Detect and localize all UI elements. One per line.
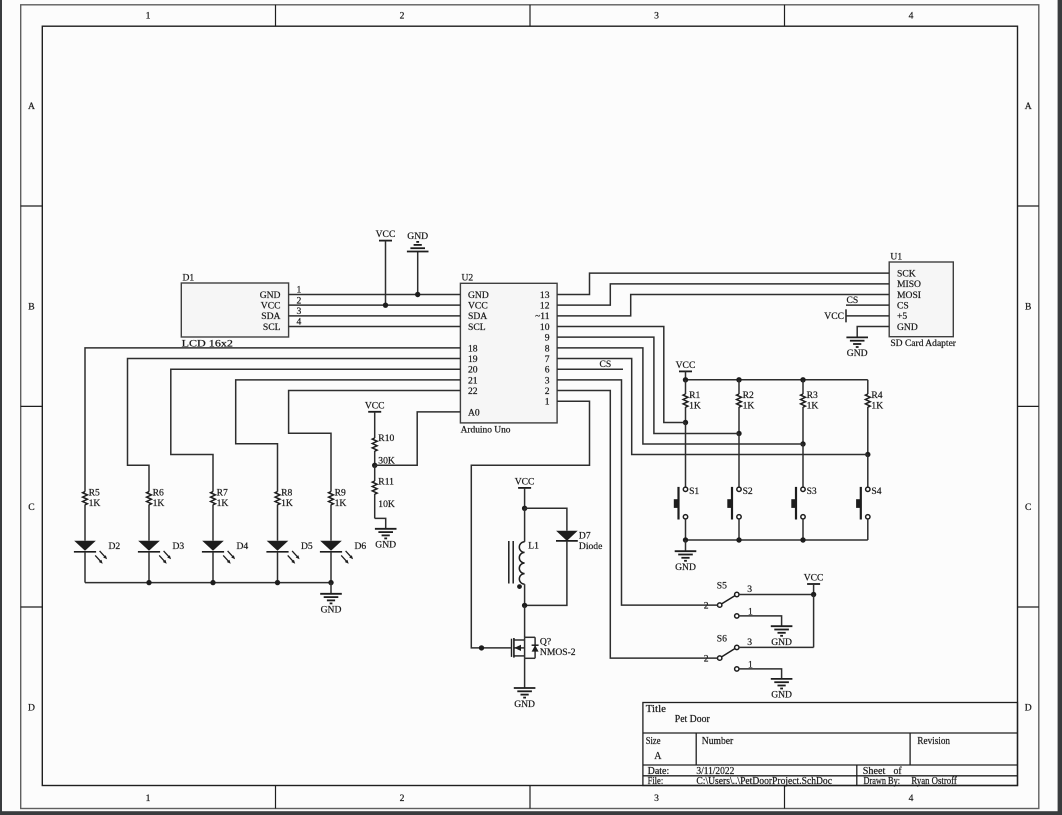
junction VCC at S5.3 [811,592,816,597]
svg-text:S3: S3 [807,486,817,497]
svg-text:GND: GND [514,699,535,710]
svg-text:C:\Users\..\PetDoorProject.Sch: C:\Users\..\PetDoorProject.SchDoc [696,776,832,787]
wire S5.1 to ground [739,616,782,626]
wire U2.22 to R9 [289,391,461,492]
wire net SDA D1.3 to U2.SDA [289,315,461,317]
svg-text:1K: 1K [217,498,229,509]
resistor R4 [867,380,869,394]
svg-text:Q?: Q? [540,636,551,647]
svg-text:MISO: MISO [897,279,921,290]
switch S5 [718,603,722,607]
resistor R5 [83,492,88,505]
svg-text:Number: Number [702,736,734,747]
junction R4 bottom [865,452,870,457]
svg-text:D: D [28,703,35,714]
junction R10/R11 node [372,463,377,468]
wire divider node to U2.A0 [375,412,461,465]
svg-text:1K: 1K [281,498,293,509]
led D6 [330,507,332,541]
svg-text:SDA: SDA [468,311,487,322]
svg-text:GND: GND [771,690,792,701]
svg-text:10: 10 [540,322,550,333]
power GND below U1 [846,336,868,338]
diode D7 [556,531,578,541]
wire U2.10 to R1/S1 node [557,327,685,423]
svg-text:9: 9 [545,333,550,344]
svg-text:D6: D6 [355,541,367,552]
wire S3 to ground rail [802,519,804,540]
svg-text:3/11/2022: 3/11/2022 [696,766,734,777]
svg-text:U2: U2 [462,273,474,284]
resistor R9 [329,492,334,505]
svg-text:SDA: SDA [261,311,280,322]
wire U2.1 to Q gate [471,401,589,648]
svg-text:R5: R5 [89,487,100,498]
svg-text:D5: D5 [301,541,313,552]
svg-text:SD Card Adapter: SD Card Adapter [890,338,956,349]
svg-text:VCC: VCC [365,400,385,411]
svg-text:4: 4 [909,11,914,22]
svg-text:+5: +5 [897,311,907,322]
svg-text:Arduino Uno: Arduino Uno [461,424,511,435]
resistor R10 [374,425,376,438]
svg-text:Pet Door: Pet Door [675,714,711,725]
junction LED rail at x=149 [146,580,151,585]
power GND below Q [514,687,536,689]
power GND below S6.1 [771,678,793,680]
junction S rail at S2 [736,537,741,542]
pushbutton S2 [737,487,741,491]
junction GND net at D1 bus [415,292,420,297]
power GND below S5.1 [771,625,793,627]
pushbutton S4 [866,487,870,491]
svg-text:GND: GND [847,348,868,359]
wire R3 to S3 [802,444,804,487]
wire U2.2 to S6.2 [557,391,717,659]
svg-text:VCC: VCC [804,573,824,584]
svg-text:Revision: Revision [917,736,950,747]
wire L1 top to D7 cathode [525,508,567,531]
resistor R1 [685,380,687,394]
wire S5.3 to VCC node [739,594,814,596]
wire net SCL D1.4 to U2.SCL [289,326,461,328]
svg-text:1K: 1K [743,401,755,412]
svg-text:VCC: VCC [515,477,535,488]
svg-text:D4: D4 [237,541,249,552]
svg-text:20: 20 [468,365,478,376]
junction R2 bottom [736,431,741,436]
inductor L1 [524,508,526,542]
svg-text:C: C [28,502,34,513]
screen edge bottom [0,811,1062,815]
wire U2.~11 to U1.MOSI [557,295,889,316]
wire U2.13 to U1.SCK [557,273,889,294]
svg-text:CS: CS [600,359,612,370]
svg-text:Sheet: Sheet [863,766,886,777]
wire VCC rail above R1-R4 [686,379,868,381]
wire ground rail below LEDs [85,582,331,584]
svg-text:R6: R6 [153,487,164,498]
svg-text:MOSI: MOSI [897,290,921,301]
wire S4 to ground rail [867,519,869,540]
wire VCC down to S6.3 [813,595,815,648]
power GND above D1 bus [417,252,419,295]
wire ground rail below S1-S4 [686,539,868,541]
junction R3 bottom [800,441,805,446]
wire U2.9 to R2/S2 node [557,337,739,433]
svg-text:GND: GND [407,231,428,242]
svg-text:Diode: Diode [579,541,602,552]
svg-text:A0: A0 [468,407,480,418]
svg-text:2: 2 [545,386,550,397]
svg-text:8: 8 [545,343,550,354]
title block grid [643,703,1018,786]
junction VCC net at D1 bus [383,302,388,307]
svg-text:Ryan Ostroff: Ryan Ostroff [911,776,957,787]
svg-text:19: 19 [468,354,478,365]
junction VCC rail at R3 [800,377,805,382]
resistor R2 [738,380,740,394]
svg-text:22: 22 [468,386,478,397]
svg-text:GND: GND [771,637,792,648]
junction LED rail at x=331 [328,580,333,585]
svg-text:13: 13 [540,290,550,301]
resistor R7 [211,492,216,505]
svg-text:R11: R11 [378,477,394,488]
led D3 [148,507,150,541]
junction S rail at S3 [800,537,805,542]
wire S6.3 to VCC node [739,646,814,648]
svg-text:R7: R7 [217,487,228,498]
svg-text:L1: L1 [528,541,539,552]
svg-text:NMOS-2: NMOS-2 [540,647,576,658]
svg-text:A: A [28,101,35,112]
svg-text:GND: GND [321,605,342,616]
svg-text:6: 6 [545,365,550,376]
screen edge right [1058,0,1062,815]
junction R1 bottom [683,420,688,425]
svg-text:File:: File: [648,776,664,787]
svg-text:Drawn By:: Drawn By: [864,776,901,787]
junction L1 top node [522,506,527,511]
svg-text:1: 1 [545,397,550,408]
svg-text:D3: D3 [173,541,185,552]
svg-text:2: 2 [400,793,405,804]
svg-text:GND: GND [897,322,918,333]
arduino U2 box [460,283,557,423]
svg-text:4: 4 [909,793,914,804]
svg-text:B: B [28,301,34,312]
pushbutton S1 [683,487,687,491]
wire R2 to S2 [738,434,740,488]
wire R1 to S1 [685,423,687,488]
screen edge left [0,0,2,815]
power GND below R11 [375,528,397,530]
svg-text:3: 3 [747,637,752,648]
wire U2.3 to S5.2 [557,380,717,605]
wire L1 bottom to Q drain [524,605,526,637]
svg-text:1K: 1K [871,401,883,412]
svg-text:3: 3 [545,375,550,386]
svg-text:Size: Size [646,736,661,747]
svg-text:1K: 1K [689,401,701,412]
junction on Q gate wire [479,645,484,650]
net label CS stub on U2.6 [557,368,623,370]
svg-text:1K: 1K [89,498,101,509]
wire R11 to ground [375,518,386,528]
svg-text:VCC: VCC [468,301,488,312]
junction L1 bottom node [522,603,527,608]
svg-text:B: B [1025,301,1031,312]
svg-text:GND: GND [375,540,396,551]
wire Q source to ground [524,658,526,688]
svg-text:R8: R8 [281,487,292,498]
svg-text:R10: R10 [378,433,394,444]
svg-text:3: 3 [747,584,752,595]
svg-text:Title: Title [646,704,667,715]
resistor R8 [275,492,280,505]
svg-text:SCK: SCK [897,269,916,280]
svg-text:SCL: SCL [468,322,486,333]
svg-text:GND: GND [468,290,489,301]
resistor R11 [374,465,376,481]
svg-text:1: 1 [146,793,151,804]
svg-text:21: 21 [468,375,478,386]
svg-text:1K: 1K [153,498,165,509]
svg-text:VCC: VCC [676,360,696,371]
svg-text:of: of [894,766,903,777]
svg-text:S4: S4 [871,486,881,497]
svg-text:SCL: SCL [263,322,281,333]
wire U2.12 to U1.MISO [557,284,889,305]
switch S6 [718,656,722,660]
pushbutton S3 [801,487,805,491]
svg-text:A: A [1025,101,1032,112]
svg-text:S2: S2 [743,486,753,497]
junction LED rail at x=213 [210,580,215,585]
svg-text:1: 1 [146,11,151,22]
svg-text:VCC: VCC [824,311,844,322]
junction VCC rail at R1 [683,377,688,382]
svg-text:GND: GND [260,290,281,301]
svg-text:3: 3 [654,793,659,804]
svg-text:1K: 1K [807,401,819,412]
resistor R3 [802,380,804,394]
svg-text:10K: 10K [378,499,395,510]
led D4 [212,507,214,541]
svg-text:S5: S5 [717,581,727,592]
svg-text:VCC: VCC [376,229,396,240]
svg-text:C: C [1025,502,1031,513]
wire S1 to ground rail [685,519,687,540]
wire S6.1 to ground [739,669,782,679]
wire D7 anode to L1 bottom node [525,541,567,606]
sd card U1 box [889,262,953,337]
wire U2.7 to R4/S4 node [557,359,868,455]
svg-text:Date:: Date: [648,766,670,777]
svg-text:GND: GND [675,562,696,573]
svg-text:~11: ~11 [535,311,550,322]
svg-text:D2: D2 [109,541,121,552]
zone divider ticks [275,5,277,26]
wire U2.21 to R8 [236,380,461,492]
power GND below LED rail [330,583,332,594]
svg-text:CS: CS [897,301,909,312]
wire U2.8 to R3/S3 node [557,348,803,444]
led D2 [84,507,86,541]
wire U2.20 to R7 [171,369,461,491]
svg-text:D: D [1025,703,1032,714]
wire U2.18 to R5 [85,348,460,492]
wire net VCC D1.2 to U2.VCC [289,304,461,306]
svg-text:U1: U1 [890,251,902,262]
svg-text:1K: 1K [335,498,347,509]
svg-text:3: 3 [654,11,659,22]
lcd D1 box [181,283,288,337]
power GND below switch rail [685,540,687,551]
svg-text:S6: S6 [717,633,727,644]
wire net GND D1.1 to U2.GND [289,294,461,296]
junction S rail at S1 [683,537,688,542]
junction LED rail at x=277.5 [275,580,280,585]
resistor R6 [147,492,152,505]
svg-text:7: 7 [545,354,550,365]
svg-text:12: 12 [540,301,550,312]
svg-text:A: A [654,751,662,762]
transistor Q? NMOS-2 [525,636,536,638]
wire U2.19 to R6 [128,359,461,492]
svg-text:VCC: VCC [261,301,281,312]
svg-text:18: 18 [468,343,478,354]
wire U1.GND to ground [857,327,889,338]
svg-text:D1: D1 [183,273,195,284]
junction VCC rail at R2 [736,377,741,382]
svg-text:S1: S1 [689,486,699,497]
led D5 [277,507,279,541]
wire R4 to S4 [867,455,869,488]
svg-text:2: 2 [400,11,405,22]
svg-text:R9: R9 [335,487,346,498]
wire S2 to ground rail [738,519,740,540]
